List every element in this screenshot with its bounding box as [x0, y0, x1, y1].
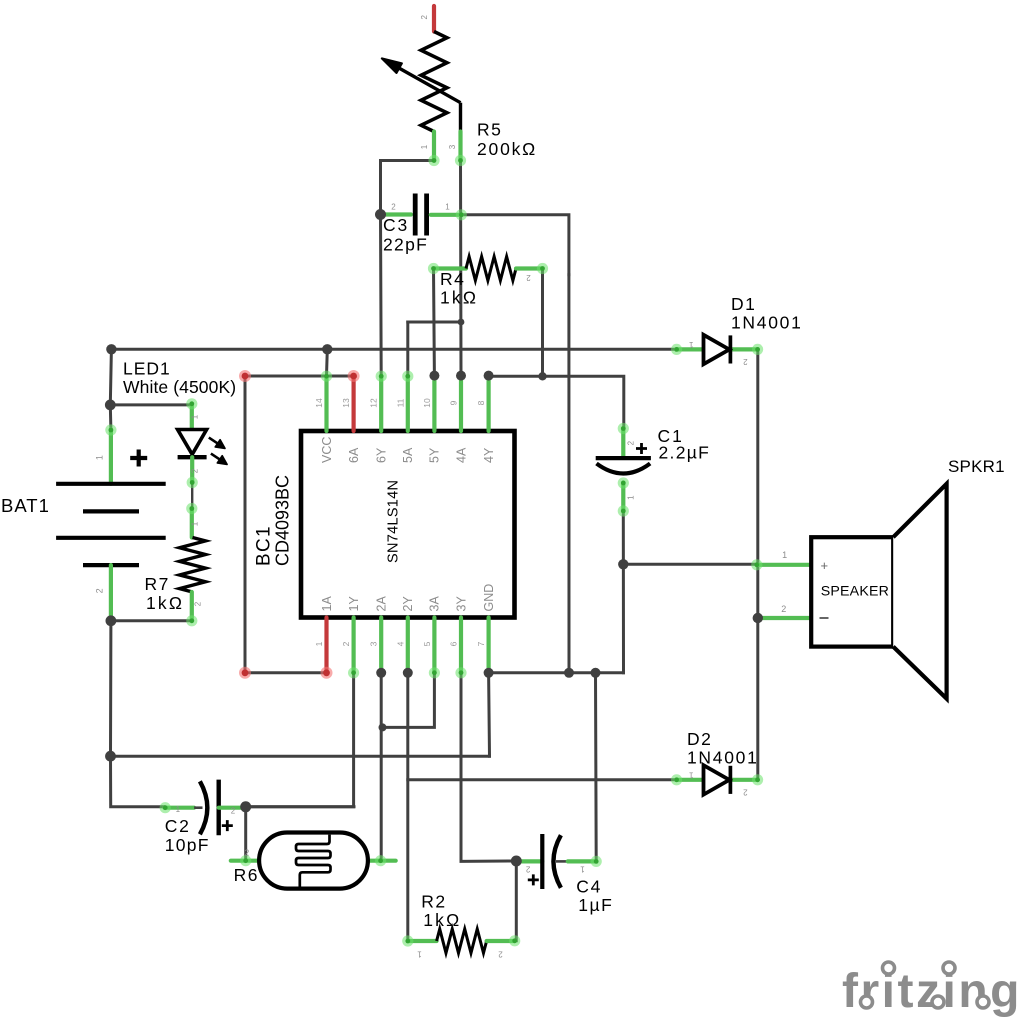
- photoresistor LDR R6: [231, 833, 396, 889]
- svg-text:5A: 5A: [401, 447, 415, 463]
- wire down-left corner to C2 pin 1: [111, 756, 164, 807]
- svg-text:1Y: 1Y: [347, 596, 361, 612]
- svg-text:D1: D1: [731, 294, 756, 314]
- pin 7 GND stub: [487, 618, 491, 673]
- pin 1 1A stub (red): [324, 618, 328, 673]
- svg-text:7: 7: [476, 641, 486, 646]
- fritzing logo: [842, 962, 1017, 1018]
- battery BAT1: [1, 424, 166, 620]
- svg-text:1: 1: [689, 340, 694, 349]
- svg-text:5Y: 5Y: [428, 447, 442, 463]
- pin 8 4Y stub: [487, 376, 491, 431]
- wire LED1 cathode to R7: [191, 483, 193, 509]
- svg-text:1: 1: [580, 865, 585, 874]
- capacitor C4 1uF: [519, 834, 613, 915]
- svg-text:6Y: 6Y: [375, 447, 389, 463]
- svg-text:12: 12: [369, 398, 379, 408]
- svg-text:5: 5: [422, 641, 432, 646]
- svg-text:BAT1: BAT1: [1, 495, 50, 516]
- svg-text:13: 13: [341, 398, 351, 408]
- wire IC pin 8 4Y to C1 pin 2: [489, 376, 624, 427]
- diode D1 1N4001: [671, 294, 803, 366]
- wire to LED1 anode: [110, 403, 192, 406]
- junction pin-14 branch: [322, 344, 332, 354]
- junction IC pin 4 bottom: [403, 668, 413, 678]
- wire continues down to GND bus: [567, 275, 570, 673]
- svg-text:1: 1: [445, 203, 450, 212]
- svg-text:2: 2: [781, 604, 786, 614]
- wire D1 cathode down to D2 cathode: [756, 349, 759, 780]
- LED LED1 White: [123, 359, 236, 489]
- svg-text:9: 9: [449, 400, 459, 405]
- junction GND bus / C4 column: [591, 668, 601, 678]
- svg-text:2: 2: [391, 203, 396, 212]
- svg-text:2: 2: [231, 807, 236, 816]
- resistor R4 1k: [428, 257, 548, 308]
- wire branch to IC pin 14 VCC: [325, 349, 329, 376]
- svg-text:BC1: BC1: [254, 525, 275, 566]
- svg-text:SPEAKER: SPEAKER: [821, 584, 889, 600]
- svg-text:fritzing: fritzing: [842, 965, 1017, 1018]
- svg-text:2: 2: [194, 601, 203, 606]
- pin 4 2Y stub: [406, 618, 410, 673]
- junction 3A-2A link: [379, 723, 387, 731]
- svg-text:1µF: 1µF: [578, 895, 613, 915]
- junction battery- / R7: [106, 615, 117, 626]
- junction battery- / gnd run: [105, 751, 116, 762]
- wire 5A link over to 4A column: [408, 321, 461, 324]
- wire R4 pin2 down to 4Y-C1 wire: [541, 269, 544, 377]
- svg-text:1kΩ: 1kΩ: [146, 593, 184, 613]
- svg-text:1: 1: [627, 495, 636, 500]
- svg-text:R5: R5: [477, 120, 502, 140]
- svg-text:R6: R6: [234, 865, 259, 885]
- svg-text:GND: GND: [482, 584, 496, 612]
- junction R4 pin2 tap: [538, 372, 546, 380]
- wire down to IC pin 11 5A: [406, 322, 409, 376]
- svg-text:1kΩ: 1kΩ: [440, 288, 478, 308]
- svg-text:2: 2: [526, 273, 531, 282]
- svg-text:200kΩ: 200kΩ: [477, 139, 537, 159]
- svg-text:LED1: LED1: [123, 359, 171, 379]
- pin 6 3Y stub: [459, 618, 463, 673]
- wire branch to D2 anode: [408, 778, 676, 781]
- svg-text:1: 1: [420, 144, 429, 149]
- svg-text:1N4001: 1N4001: [687, 748, 759, 768]
- svg-text:2.2µF: 2.2µF: [659, 443, 711, 463]
- wire C2 node down to R6 pin left: [244, 807, 247, 861]
- pin 10 5Y stub: [432, 376, 436, 431]
- svg-text:2: 2: [743, 787, 748, 796]
- svg-text:CD4093BC: CD4093BC: [273, 475, 293, 566]
- svg-text:1: 1: [782, 550, 787, 560]
- junction 5A link end: [458, 319, 465, 326]
- pin 5 3A stub: [432, 618, 436, 673]
- svg-text:1: 1: [314, 641, 324, 646]
- svg-text:1: 1: [176, 805, 181, 814]
- svg-text:10: 10: [422, 398, 432, 408]
- pin 13 6A stub (red): [352, 376, 356, 431]
- junction C4 pin 2 node: [511, 856, 522, 867]
- svg-text:R4: R4: [440, 269, 465, 289]
- wire red net top: to pin 13 6A: [245, 375, 354, 378]
- svg-text:SPKR1: SPKR1: [948, 457, 1005, 476]
- svg-text:3: 3: [369, 641, 379, 646]
- wire C1 node to speaker pin 1: [623, 563, 756, 566]
- diode D2 1N4001: [671, 729, 763, 796]
- potentiometer R5 200k: [382, 6, 537, 166]
- speaker SPKR1: [751, 457, 1005, 699]
- junction GND bus / C3 column: [564, 668, 574, 678]
- wire R5 pin3 down to IC pin 9 4A: [459, 161, 463, 376]
- svg-text:22pF: 22pF: [383, 235, 428, 255]
- svg-text:2: 2: [525, 865, 530, 874]
- svg-text:VCC: VCC: [320, 437, 334, 463]
- pin 12 6Y stub: [379, 376, 383, 431]
- svg-text:3Y: 3Y: [454, 596, 468, 612]
- wire IC pin 3 2A down to R6 pin right: [380, 673, 383, 861]
- svg-text:1A: 1A: [320, 596, 334, 612]
- svg-text:1: 1: [95, 455, 105, 460]
- junction IC pin 9 top: [456, 371, 466, 381]
- svg-text:C2: C2: [165, 816, 191, 836]
- wire IC pin 6 3Y down to C4 pin 2 node: [461, 673, 516, 862]
- svg-text:14: 14: [314, 398, 324, 408]
- wire R7 pin2 to battery- node: [111, 619, 192, 622]
- svg-text:1: 1: [417, 950, 422, 959]
- svg-text:1: 1: [689, 770, 694, 779]
- wire VCC net: battery+ to D1 anode: [111, 348, 675, 351]
- svg-text:4: 4: [395, 641, 405, 646]
- op-amp/IC U1 BC1 CD4093BC SN74LS14N: [239, 370, 515, 679]
- junction IC pin 3 bottom: [376, 668, 386, 678]
- pin 3 2A stub: [379, 618, 383, 673]
- svg-text:4A: 4A: [454, 447, 468, 463]
- wire up to GND pin junction: [487, 673, 491, 756]
- svg-text:11: 11: [395, 398, 405, 407]
- svg-text:2: 2: [341, 641, 351, 646]
- wire IC pin 4 2Y down to R2 pin 1: [406, 673, 409, 941]
- svg-text:2: 2: [191, 468, 200, 473]
- svg-text:10pF: 10pF: [165, 835, 210, 855]
- svg-text:2A: 2A: [375, 596, 389, 612]
- wire R4 pin1 down to IC pin 10 5Y: [432, 269, 436, 376]
- svg-text:3A: 3A: [428, 596, 442, 612]
- junction C2 pin 2 node: [240, 801, 251, 812]
- svg-text:2: 2: [627, 440, 636, 445]
- junction IC pin 8 top: [484, 371, 494, 381]
- junction IC pin 7 bottom: [484, 668, 494, 678]
- capacitor C1 2.2uF: [596, 423, 710, 517]
- wire GND bus corner up to C1 pin 1: [622, 512, 625, 673]
- svg-text:2: 2: [743, 357, 748, 366]
- wire IC pin 2 1Y down-left to C2 pin 2 node: [246, 673, 354, 807]
- wire red net bottom: to pin 1 1A: [245, 671, 327, 674]
- svg-text:1kΩ: 1kΩ: [423, 910, 461, 930]
- svg-text:R2: R2: [421, 892, 446, 912]
- svg-text:2: 2: [95, 588, 105, 593]
- wire battery+ column down to LED branch: [110, 349, 111, 405]
- svg-text:8: 8: [476, 400, 486, 405]
- svg-text:C4: C4: [576, 877, 602, 897]
- wire R5 pin1 to C3 pin2 node: [381, 161, 435, 215]
- svg-text:3: 3: [448, 144, 457, 149]
- svg-text:+: +: [821, 558, 829, 573]
- svg-text:4Y: 4Y: [482, 447, 496, 463]
- pin 11 5A stub: [406, 376, 410, 431]
- capacitor C2 10pF: [160, 780, 243, 855]
- pin 9 4A stub: [459, 376, 463, 431]
- svg-text:2Y: 2Y: [401, 596, 415, 612]
- svg-text:1: 1: [191, 414, 200, 419]
- wire battery- column down: [109, 621, 112, 756]
- svg-text:D2: D2: [687, 729, 712, 749]
- svg-text:SN74LS14N: SN74LS14N: [386, 480, 402, 563]
- wire C2 node segment: [246, 805, 354, 808]
- wire GND bus down to C4 pin 1: [594, 673, 598, 862]
- junction LED branch: [105, 400, 116, 411]
- wire C3 pin1 right then down (upper segment): [462, 215, 569, 275]
- svg-text:1: 1: [191, 521, 200, 526]
- wire red net left column: [244, 376, 247, 673]
- junction speaker pin 2: [753, 613, 763, 623]
- wire IC pin 5 3A down-left to 2A column: [383, 673, 435, 728]
- pin 14 VCC stub: [324, 376, 328, 431]
- svg-text:2: 2: [498, 950, 503, 959]
- svg-text:6A: 6A: [347, 447, 361, 463]
- resistor R2 1k: [402, 892, 520, 959]
- svg-text:1N4001: 1N4001: [731, 313, 803, 333]
- wire GND bus to the right: [489, 671, 624, 674]
- svg-text:6: 6: [449, 641, 459, 646]
- junction C3 pin2 node: [375, 209, 386, 220]
- wire C3 node down to IC pin 12 6Y: [379, 215, 383, 376]
- wire gnd run to IC pin 7 column: [111, 755, 490, 758]
- svg-text:2: 2: [245, 849, 250, 858]
- wire C4 node down to R2 pin 2: [515, 861, 517, 941]
- junction battery+ / VCC wire: [106, 344, 116, 354]
- junction IC pin 10 top: [429, 371, 439, 381]
- junction C1 minus / speaker: [618, 559, 628, 569]
- svg-text:White (4500K): White (4500K): [123, 377, 236, 397]
- resistor R7 1k: [145, 503, 206, 627]
- svg-text:R7: R7: [145, 574, 170, 594]
- svg-text:C3: C3: [383, 215, 409, 235]
- capacitor C3 22pF: [383, 194, 467, 255]
- svg-text:2: 2: [420, 15, 429, 20]
- wire into battery pin 1: [109, 405, 113, 430]
- pin 2 1Y stub: [352, 618, 356, 673]
